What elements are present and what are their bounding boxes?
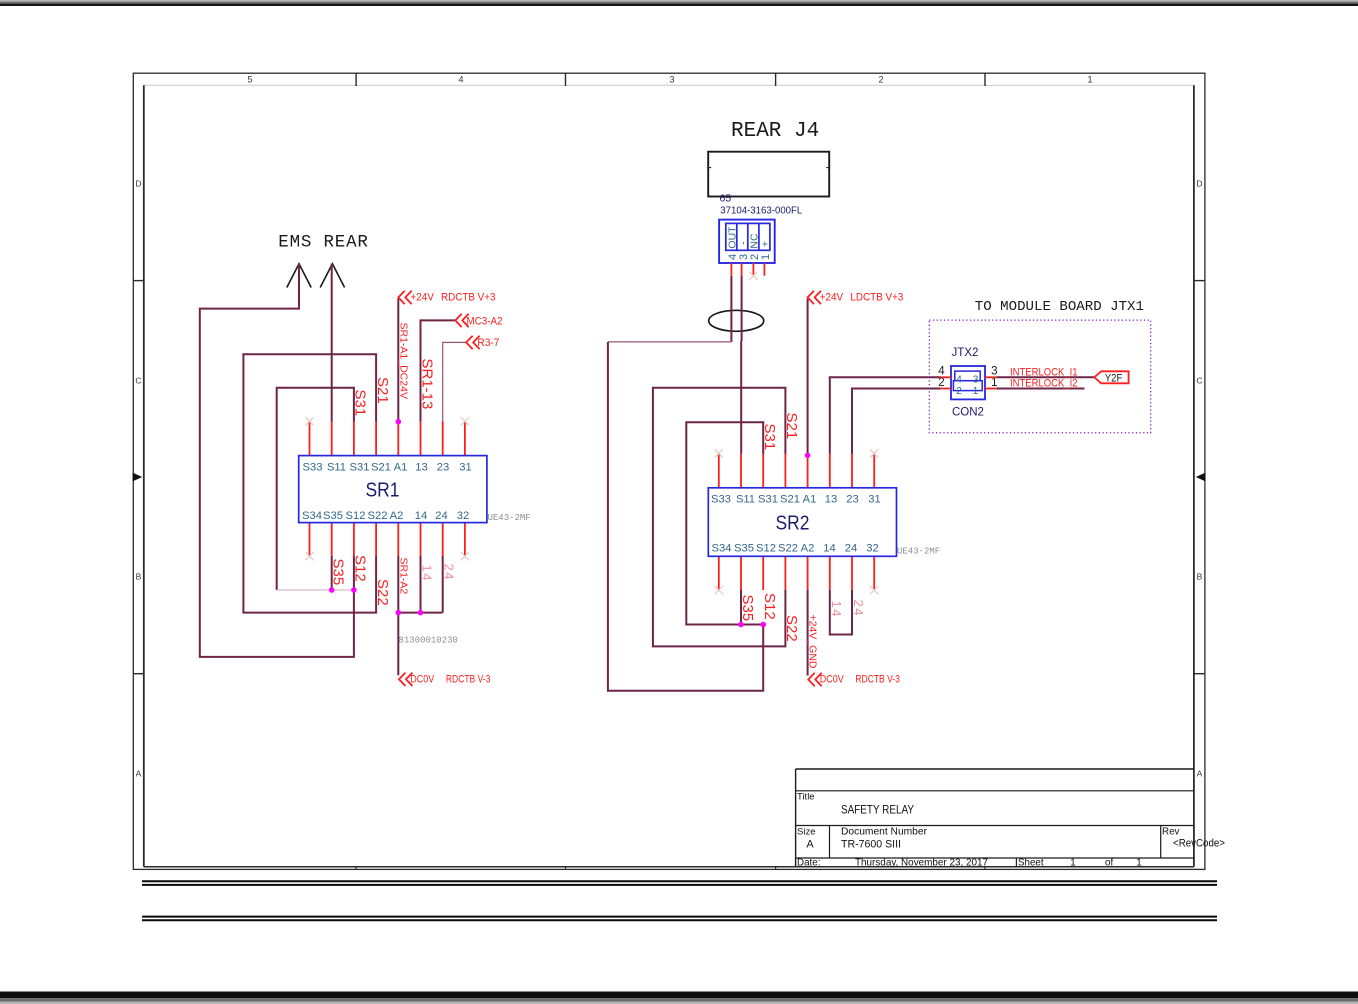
wire MC3-A2 to pin 13 bbox=[421, 320, 456, 421]
svg-text:24: 24 bbox=[435, 510, 447, 522]
no-connect S34 bbox=[305, 552, 313, 560]
svg-text:1: 1 bbox=[1136, 857, 1141, 868]
svg-text:2: 2 bbox=[956, 386, 962, 397]
SR2 pin stubs top bbox=[718, 454, 720, 488]
svg-text:3: 3 bbox=[973, 374, 979, 385]
svg-text:A: A bbox=[136, 769, 142, 779]
SR2 pin stubs bottom bbox=[718, 556, 720, 590]
svg-text:3: 3 bbox=[669, 75, 674, 85]
svg-text:S12: S12 bbox=[756, 543, 776, 555]
svg-text:81300010230: 81300010230 bbox=[399, 636, 458, 646]
wire EMS left arrow to S12 loop bbox=[200, 264, 354, 657]
svg-text:+24V: +24V bbox=[410, 291, 434, 303]
wire S12 stub to junction bbox=[353, 556, 355, 590]
wire SR2 A2 to DC0V (net +24V_GND) bbox=[807, 590, 809, 676]
junction S12 bbox=[351, 587, 357, 593]
svg-text:14: 14 bbox=[829, 601, 844, 618]
svg-text:MC3-A2: MC3-A2 bbox=[467, 315, 503, 327]
wire S31-S35 lower (thin) bbox=[277, 589, 354, 591]
svg-text:+24V_GND: +24V_GND bbox=[807, 615, 819, 669]
horizontal double rules bbox=[142, 880, 1217, 882]
svg-text:S31: S31 bbox=[350, 461, 370, 473]
svg-text:C: C bbox=[135, 376, 141, 386]
left mid-sheet arrow bbox=[133, 473, 143, 482]
off-page DC0V (SR1) bbox=[399, 673, 412, 686]
wire A2 to DC0V bbox=[397, 613, 399, 676]
wire J4 pin 3 to SR2 S11 bbox=[741, 276, 743, 341]
off-page flag Y2F bbox=[1094, 371, 1128, 383]
svg-text:A2: A2 bbox=[801, 543, 815, 555]
svg-text:Document Number: Document Number bbox=[841, 827, 928, 838]
svg-text:65: 65 bbox=[720, 192, 732, 204]
svg-text:SR1-13: SR1-13 bbox=[418, 359, 435, 410]
wire SR2 S35 stub to junction bbox=[740, 590, 742, 625]
wire SR2 pin13 to JTX2 pin4 bbox=[830, 377, 941, 454]
svg-text:31: 31 bbox=[868, 493, 880, 505]
no-connect SR2 32 bbox=[870, 586, 878, 594]
svg-text:4: 4 bbox=[458, 75, 463, 85]
svg-text:S21: S21 bbox=[780, 493, 800, 505]
svg-text:23: 23 bbox=[437, 461, 449, 473]
svg-text:RDCTB V-3: RDCTB V-3 bbox=[855, 674, 900, 686]
svg-text:32: 32 bbox=[457, 510, 469, 522]
safety relay SR2 bbox=[708, 488, 896, 557]
svg-text:S33: S33 bbox=[303, 461, 323, 473]
SR1 pin stubs top bbox=[309, 421, 311, 455]
off-page +24V (SR2) bbox=[808, 291, 821, 304]
no-connect SR2 S33 bbox=[715, 449, 723, 457]
svg-text:S22: S22 bbox=[374, 579, 391, 606]
svg-text:S12: S12 bbox=[352, 555, 369, 582]
svg-text:24: 24 bbox=[442, 564, 457, 581]
svg-text:Title: Title bbox=[797, 792, 815, 803]
connector JTX2 body bbox=[951, 366, 985, 399]
no-connect SR2 S34 bbox=[715, 586, 723, 594]
svg-text:B: B bbox=[1197, 572, 1203, 582]
svg-text:DC0V: DC0V bbox=[820, 674, 845, 686]
svg-text:37104-3163-000FL: 37104-3163-000FL bbox=[720, 206, 802, 217]
svg-text:D: D bbox=[135, 179, 141, 189]
no-connect 31 bbox=[461, 417, 469, 425]
svg-text:14: 14 bbox=[415, 510, 427, 522]
wire A2/14/24 bottom rail bbox=[398, 556, 442, 613]
svg-text:3: 3 bbox=[991, 365, 997, 377]
svg-text:+24V: +24V bbox=[820, 291, 844, 303]
svg-text:S11: S11 bbox=[736, 493, 755, 505]
svg-text:S22: S22 bbox=[778, 543, 798, 555]
svg-text:C: C bbox=[1196, 376, 1202, 386]
off-page MC3-A2 bbox=[455, 314, 468, 327]
svg-text:S33: S33 bbox=[711, 493, 731, 505]
wire SR2 pin23 to JTX2 pin2 bbox=[852, 389, 941, 454]
svg-text:B: B bbox=[136, 572, 142, 582]
svg-text:14: 14 bbox=[823, 543, 835, 555]
arrow symbol EMS right bbox=[320, 264, 344, 288]
svg-text:UE43-2MF: UE43-2MF bbox=[897, 547, 940, 557]
arrow symbol EMS left bbox=[287, 264, 311, 288]
junction S35 bbox=[329, 587, 335, 593]
junction A2 bbox=[396, 610, 402, 616]
zone row dividers bbox=[133, 280, 144, 282]
svg-text:5: 5 bbox=[247, 75, 252, 85]
wire SR2 14-24 loop bbox=[830, 590, 852, 635]
no-connect SR2 31 bbox=[870, 449, 878, 457]
svg-text:S34: S34 bbox=[712, 543, 732, 555]
svg-text:24: 24 bbox=[851, 600, 866, 617]
svg-text:S22: S22 bbox=[368, 510, 388, 522]
module board dashed boundary bbox=[929, 320, 1150, 433]
svg-text:RDCTB V-3: RDCTB V-3 bbox=[446, 674, 491, 686]
wire EMS right arrow to S11 bbox=[331, 264, 333, 422]
wire +24V to SR2 A1 bbox=[807, 299, 809, 456]
svg-text:S34: S34 bbox=[302, 510, 322, 522]
junction 14 bbox=[418, 610, 424, 616]
svg-text:S21: S21 bbox=[783, 413, 800, 440]
svg-text:A1: A1 bbox=[803, 493, 817, 505]
zone column dividers bbox=[355, 73, 357, 86]
wire S35 stub to junction bbox=[331, 556, 333, 590]
svg-text:RDCTB V+3: RDCTB V+3 bbox=[441, 291, 496, 303]
svg-text:Date:: Date: bbox=[797, 857, 820, 868]
svg-text:2: 2 bbox=[938, 377, 944, 389]
wire R3-7 to pin 23 (thin) bbox=[443, 342, 466, 421]
wire JTX2 pin3 to Y2F bbox=[996, 376, 1094, 378]
junction SR2 S12 bbox=[760, 622, 766, 628]
off-page DC0V (SR2) bbox=[808, 673, 821, 686]
wire J4 pin 4 loop to SR2 S12 bbox=[730, 276, 732, 342]
svg-text:<RevCode>: <RevCode> bbox=[1173, 838, 1225, 850]
svg-text:Y2F: Y2F bbox=[1105, 373, 1123, 385]
connector J4 terminal block bbox=[719, 220, 775, 263]
svg-text:1: 1 bbox=[1087, 75, 1092, 85]
svg-text:4: 4 bbox=[956, 374, 962, 385]
svg-text:+: + bbox=[759, 241, 771, 247]
svg-text:S35: S35 bbox=[734, 543, 754, 555]
wire S31 upper bbox=[277, 388, 354, 590]
svg-text:S22: S22 bbox=[783, 615, 800, 642]
svg-text:A2: A2 bbox=[390, 510, 404, 522]
off-page R3-7 bbox=[466, 336, 479, 349]
JTX2 pin stubs bbox=[941, 376, 951, 378]
svg-text:INTERLOCK_I2: INTERLOCK_I2 bbox=[1010, 377, 1078, 389]
svg-text:32: 32 bbox=[866, 543, 878, 555]
wire JTX2 pin1 bbox=[996, 388, 1084, 390]
svg-text:Thursday, November 23, 2017: Thursday, November 23, 2017 bbox=[855, 857, 988, 868]
svg-text:CON2: CON2 bbox=[952, 407, 984, 419]
no-connect S33 bbox=[305, 417, 313, 425]
svg-text:TR-7600 SIII: TR-7600 SIII bbox=[841, 839, 901, 851]
svg-text:S35: S35 bbox=[330, 559, 347, 586]
svg-text:1: 1 bbox=[991, 377, 997, 389]
off-page +24V (SR1) bbox=[398, 291, 411, 304]
svg-text:24: 24 bbox=[845, 543, 857, 555]
svg-text:S12: S12 bbox=[761, 593, 778, 620]
wire S21-S22 loop bbox=[243, 354, 376, 612]
svg-text:SR1-A2: SR1-A2 bbox=[397, 558, 409, 595]
svg-text:Size: Size bbox=[797, 827, 815, 838]
svg-text:A1: A1 bbox=[394, 461, 408, 473]
J4 pin stubs bbox=[730, 263, 732, 276]
junction A1 / +24V bbox=[396, 419, 402, 425]
wire SR2 S31-S35 loop bbox=[686, 422, 763, 624]
svg-text:EMS REAR: EMS REAR bbox=[278, 233, 368, 253]
svg-text:13: 13 bbox=[415, 461, 427, 473]
svg-text:23: 23 bbox=[846, 493, 858, 505]
svg-text:LDCTB V+3: LDCTB V+3 bbox=[850, 291, 903, 303]
svg-text:SR1: SR1 bbox=[366, 479, 400, 502]
wire SR2 S21-S22 loop bbox=[653, 388, 786, 647]
svg-text:JTX2: JTX2 bbox=[952, 347, 979, 359]
svg-text:S11: S11 bbox=[327, 461, 346, 473]
svg-text:1: 1 bbox=[760, 254, 772, 260]
safety relay SR1 bbox=[299, 456, 487, 523]
svg-text:S35: S35 bbox=[323, 510, 343, 522]
junction SR2 S35 bbox=[738, 622, 744, 628]
svg-text:13: 13 bbox=[825, 493, 837, 505]
svg-text:A: A bbox=[1197, 769, 1203, 779]
right mid-sheet arrow bbox=[1196, 473, 1206, 482]
svg-text:S12: S12 bbox=[346, 510, 366, 522]
title block bbox=[796, 768, 1194, 770]
svg-text:SR2: SR2 bbox=[776, 512, 810, 535]
svg-text:S31: S31 bbox=[761, 424, 778, 451]
svg-text:R3-7: R3-7 bbox=[477, 337, 499, 349]
svg-text:1: 1 bbox=[973, 386, 979, 397]
svg-text:SAFETY RELAY: SAFETY RELAY bbox=[841, 803, 914, 817]
svg-text:REAR J4: REAR J4 bbox=[731, 120, 819, 143]
svg-text:of: of bbox=[1105, 857, 1113, 868]
svg-text:S31: S31 bbox=[758, 493, 778, 505]
svg-text:1: 1 bbox=[1070, 857, 1075, 868]
svg-text:2: 2 bbox=[878, 75, 883, 85]
no-connect J4 pin 2 bbox=[749, 272, 757, 280]
svg-text:4: 4 bbox=[938, 365, 945, 377]
svg-text:TO MODULE BOARD JTX1: TO MODULE BOARD JTX1 bbox=[975, 299, 1144, 315]
svg-text:S31: S31 bbox=[352, 390, 369, 417]
top toolbar edge bbox=[0, 0, 1358, 2]
svg-text:14: 14 bbox=[419, 565, 434, 582]
svg-text:DC0V: DC0V bbox=[410, 673, 435, 685]
svg-text:A: A bbox=[806, 839, 814, 851]
svg-text:Sheet: Sheet bbox=[1018, 857, 1044, 868]
sheet inner border bbox=[144, 84, 1194, 86]
svg-text:S21: S21 bbox=[371, 461, 391, 473]
svg-text:D: D bbox=[1196, 179, 1202, 189]
no-connect 32 bbox=[461, 552, 469, 560]
SR1 pin stubs bottom bbox=[309, 523, 311, 557]
bottom taskbar edge bbox=[0, 992, 1358, 999]
svg-text:S21: S21 bbox=[374, 377, 391, 404]
cable ellipse bbox=[709, 310, 764, 331]
junction SR2 A1 / +24V bbox=[805, 453, 811, 459]
sheet outer border bbox=[133, 73, 1205, 869]
svg-text:S35: S35 bbox=[739, 595, 756, 622]
svg-text:Rev: Rev bbox=[1162, 827, 1180, 838]
svg-text:SR1-A1_DC24V: SR1-A1_DC24V bbox=[397, 323, 409, 399]
wire +24V to A1 (net SR1-A1_DC24V) bbox=[397, 299, 399, 422]
svg-text:31: 31 bbox=[459, 461, 471, 473]
connector J4 housing bbox=[708, 152, 829, 197]
svg-text:UE43-2MF: UE43-2MF bbox=[488, 513, 531, 523]
